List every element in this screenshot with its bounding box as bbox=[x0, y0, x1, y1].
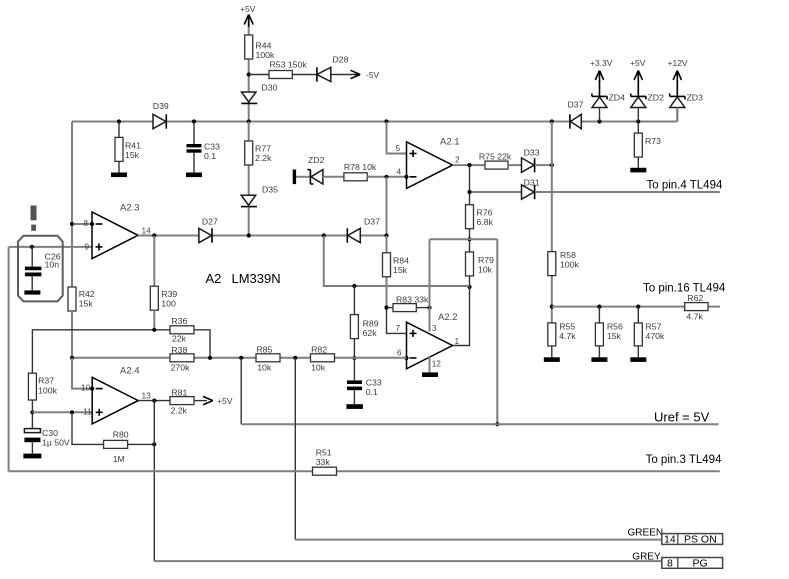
power +5V arrow right bbox=[630, 58, 646, 83]
svg-text:R37: R37 bbox=[38, 376, 54, 386]
node R39 bottom bbox=[152, 328, 156, 332]
wire pin11 line bbox=[32, 411, 92, 413]
resistor R80 bbox=[104, 430, 129, 465]
node C33a bbox=[192, 119, 196, 123]
svg-text:R41: R41 bbox=[125, 141, 141, 151]
resistor R56 bbox=[595, 307, 623, 358]
svg-text:R42: R42 bbox=[79, 289, 95, 299]
svg-text:1µ 50V: 1µ 50V bbox=[42, 438, 70, 448]
node R41 bbox=[117, 119, 121, 123]
wire GREEN line bbox=[295, 528, 663, 540]
node pin6 input dot bbox=[404, 356, 408, 360]
wire y=239 top run bbox=[430, 238, 498, 240]
node pin8 input bbox=[90, 222, 94, 226]
wire A2.1 output bbox=[453, 155, 486, 166]
svg-text:D27: D27 bbox=[202, 217, 218, 227]
node ZD2 bbox=[636, 119, 640, 123]
capacitor C26 bbox=[25, 247, 61, 291]
diode D31 bbox=[522, 178, 540, 200]
node junction R44/R53/D30 bbox=[247, 72, 251, 76]
svg-text:GREEN: GREEN bbox=[628, 528, 664, 539]
svg-text:A2.3: A2.3 bbox=[120, 203, 140, 214]
wire D30 to pin14 line with R77 D35 bbox=[248, 122, 250, 236]
svg-text:270k: 270k bbox=[171, 363, 190, 373]
node pin4 riser bottom bbox=[384, 233, 388, 237]
ground R55 bbox=[544, 357, 560, 362]
node R36 drop bbox=[208, 356, 212, 360]
resistor R77 bbox=[245, 141, 272, 165]
svg-text:C33: C33 bbox=[204, 142, 220, 152]
zener ZD4 bbox=[592, 80, 625, 122]
wire ZD3 riser corner bbox=[676, 108, 678, 122]
resistor R76 bbox=[466, 205, 494, 229]
svg-text:0.1: 0.1 bbox=[366, 387, 378, 397]
svg-text:R73: R73 bbox=[645, 136, 661, 146]
svg-text:+5V: +5V bbox=[217, 396, 233, 406]
wire pin8 stub bbox=[72, 223, 92, 225]
svg-text:R75 22k: R75 22k bbox=[479, 152, 512, 162]
wire to pin.4 TL494 bbox=[535, 180, 723, 193]
node D33 R58 riser bbox=[550, 163, 554, 167]
power +3.3V arrow bbox=[590, 58, 613, 83]
ground R57 bbox=[630, 357, 646, 362]
power +5V arrow bbox=[244, 15, 253, 28]
svg-text:R85: R85 bbox=[256, 345, 272, 355]
svg-text:+12V: +12V bbox=[668, 58, 688, 68]
svg-text:LM339N: LM339N bbox=[232, 271, 281, 286]
svg-text:R83 33k: R83 33k bbox=[396, 295, 429, 305]
capacitor C33 top bbox=[187, 122, 221, 173]
svg-text:100k: 100k bbox=[256, 50, 275, 60]
svg-text:10k: 10k bbox=[478, 265, 493, 275]
power +12V arrow bbox=[668, 58, 688, 83]
resistor R73 bbox=[634, 122, 661, 168]
ground A2.2 pin12 bbox=[422, 357, 438, 377]
svg-text:ZD2: ZD2 bbox=[648, 93, 665, 103]
connector PS ON box bbox=[662, 534, 723, 546]
capacitor C30 bbox=[24, 428, 70, 454]
wire Uref =5V line bbox=[241, 358, 718, 425]
power +5V arrow A2.4 bbox=[194, 396, 233, 406]
wire pin5 riser bbox=[387, 122, 407, 154]
power -5V arrow bbox=[351, 70, 380, 80]
node R56 bbox=[597, 305, 601, 309]
resistor R36 bbox=[170, 316, 194, 344]
svg-text:R77: R77 bbox=[255, 144, 271, 154]
svg-text:8: 8 bbox=[667, 557, 673, 569]
svg-text:10k: 10k bbox=[311, 363, 326, 373]
svg-text:12: 12 bbox=[432, 359, 442, 369]
svg-text:+3.3V: +3.3V bbox=[590, 58, 613, 68]
svg-text:ZD3: ZD3 bbox=[687, 93, 704, 103]
node D35 bottom bbox=[247, 233, 251, 237]
diode D27 bbox=[199, 217, 218, 243]
wire R76 chain vertical bbox=[469, 165, 471, 287]
wire pin4 drop to pin14 line bbox=[386, 177, 388, 236]
resistor R78 bbox=[323, 162, 407, 181]
svg-text:To pin.4 TL494: To pin.4 TL494 bbox=[647, 180, 723, 192]
zener ZD2 right bbox=[631, 80, 664, 122]
svg-text:15k: 15k bbox=[79, 299, 94, 309]
svg-text:R79: R79 bbox=[478, 255, 494, 265]
zener ZD2 small bbox=[293, 155, 325, 184]
svg-text:5: 5 bbox=[396, 143, 401, 153]
node R58 riser bbox=[550, 119, 554, 123]
resistor R79 bbox=[466, 252, 495, 276]
svg-text:D33: D33 bbox=[524, 148, 540, 158]
resistor R53 bbox=[269, 60, 307, 79]
svg-text:15k: 15k bbox=[393, 265, 408, 275]
ground R41 bbox=[111, 173, 127, 178]
diode D35 bbox=[241, 185, 278, 207]
node Uref drop bbox=[239, 356, 243, 360]
node ZD4 bbox=[597, 119, 601, 123]
svg-text:D35: D35 bbox=[262, 185, 278, 195]
svg-text:4.7k: 4.7k bbox=[559, 331, 576, 341]
node Uref junction bbox=[495, 422, 499, 426]
svg-text:1M: 1M bbox=[113, 454, 125, 464]
svg-text:D37: D37 bbox=[568, 100, 584, 110]
resistor R41 bbox=[115, 122, 141, 173]
ground R56 bbox=[591, 357, 607, 362]
warning mark bbox=[31, 206, 37, 231]
svg-text:C33: C33 bbox=[366, 378, 382, 388]
node R83 right bbox=[427, 306, 431, 310]
svg-text:11: 11 bbox=[83, 407, 92, 417]
svg-text:62k: 62k bbox=[363, 328, 378, 338]
resistor R58 bbox=[548, 250, 580, 276]
wire pin9 line from outer loop bbox=[9, 246, 92, 248]
ground C33 top bbox=[186, 173, 202, 178]
resistor R83 bbox=[387, 295, 430, 312]
wire R58 riser bbox=[551, 122, 553, 323]
svg-text:R78 10k: R78 10k bbox=[344, 162, 377, 172]
svg-text:R55: R55 bbox=[559, 322, 575, 332]
svg-text:R82: R82 bbox=[311, 345, 327, 355]
ground R73 bbox=[630, 168, 646, 173]
wire to pin.3 TL494 with R51 bbox=[9, 454, 722, 471]
resistor R38 bbox=[170, 345, 194, 373]
svg-text:2: 2 bbox=[455, 155, 460, 165]
svg-text:+5V: +5V bbox=[630, 58, 646, 68]
resistor R51 bbox=[313, 448, 337, 476]
wire +5V arrow shaft to R44 and down to main bus bbox=[248, 20, 250, 122]
svg-text:D37: D37 bbox=[364, 217, 380, 227]
svg-text:PS ON: PS ON bbox=[684, 534, 717, 546]
node R83 left bbox=[384, 306, 388, 310]
svg-text:R38: R38 bbox=[171, 345, 187, 355]
svg-text:R80: R80 bbox=[113, 430, 129, 440]
wire GREEN drop bbox=[294, 358, 296, 540]
svg-text:10k: 10k bbox=[257, 363, 272, 373]
svg-text:R44: R44 bbox=[256, 41, 272, 51]
svg-text:C30: C30 bbox=[42, 428, 58, 438]
wire R84 R83 pin7 chain bbox=[387, 236, 407, 334]
svg-text:7: 7 bbox=[396, 323, 401, 333]
resistor R44 bbox=[245, 35, 275, 60]
diode D28 bbox=[317, 55, 349, 82]
resistor R42 bbox=[68, 287, 95, 358]
svg-text:2.2k: 2.2k bbox=[255, 153, 272, 163]
diode D37 mid bbox=[347, 217, 380, 243]
node R80 right bbox=[152, 442, 156, 446]
svg-text:6: 6 bbox=[397, 348, 402, 358]
svg-text:15k: 15k bbox=[607, 331, 622, 341]
wire x=323.8 drop and y=286 run bbox=[324, 236, 470, 287]
resistor R55 bbox=[548, 322, 576, 358]
svg-text:+5V: +5V bbox=[240, 4, 256, 14]
resistor R85 bbox=[256, 345, 280, 373]
node D31 junction bbox=[467, 190, 471, 194]
resistor R39 bbox=[150, 236, 177, 330]
wire D31 branch bbox=[470, 191, 522, 193]
ground C30 bbox=[23, 454, 41, 459]
svg-text:3: 3 bbox=[432, 323, 437, 333]
node R76 bottom bbox=[467, 237, 471, 241]
wire left riser x=72 top bbox=[71, 122, 73, 288]
wire pin13 drop to GREY bbox=[153, 401, 155, 561]
svg-text:To pin.3 TL494: To pin.3 TL494 bbox=[646, 454, 722, 466]
svg-text:ZD4: ZD4 bbox=[609, 93, 626, 103]
node pin13 bbox=[152, 399, 156, 403]
svg-text:A2.2: A2.2 bbox=[438, 312, 458, 323]
wire pin3 drop to Uref bbox=[496, 239, 498, 424]
svg-text:D30: D30 bbox=[262, 83, 278, 93]
node pin4 input dot bbox=[404, 175, 408, 179]
resistor R57 bbox=[634, 307, 665, 358]
svg-text:4: 4 bbox=[397, 167, 402, 177]
wire main bus y=121.5 bbox=[72, 121, 677, 123]
node R78 pin4 bbox=[384, 175, 388, 179]
node pin5 riser bbox=[384, 119, 388, 123]
node output pin2 bbox=[467, 163, 471, 167]
svg-text:D28: D28 bbox=[333, 55, 349, 65]
svg-text:33k: 33k bbox=[316, 457, 331, 467]
svg-text:R56: R56 bbox=[607, 322, 623, 332]
node R37 C30 pin11 bbox=[30, 410, 34, 414]
label A2 LM339N bbox=[206, 271, 281, 286]
svg-text:To pin.16 TL494: To pin.16 TL494 bbox=[643, 283, 726, 295]
svg-text:A2.4: A2.4 bbox=[120, 366, 140, 377]
wire R38 line bbox=[72, 357, 407, 359]
svg-text:14: 14 bbox=[664, 534, 676, 546]
svg-text:2.2k: 2.2k bbox=[171, 406, 188, 416]
resistor R75 bbox=[479, 152, 522, 170]
wire R36 line bbox=[32, 330, 210, 373]
svg-text:100k: 100k bbox=[560, 260, 579, 270]
diode D33 bbox=[522, 148, 552, 173]
wire R80 feedback bbox=[72, 412, 154, 444]
diode D30 bbox=[241, 83, 277, 104]
diode D39 bbox=[153, 101, 169, 129]
svg-text:0.1: 0.1 bbox=[204, 151, 216, 161]
node pin14 R39 bbox=[152, 233, 156, 237]
resistor R82 bbox=[311, 345, 335, 373]
resistor R81 bbox=[170, 388, 194, 416]
connector PG box bbox=[662, 557, 723, 569]
svg-text:R89: R89 bbox=[363, 319, 379, 329]
svg-text:ZD2: ZD2 bbox=[308, 155, 325, 165]
wire pin3 riser bbox=[429, 239, 431, 331]
wire A2.2 output jog bbox=[453, 287, 470, 346]
svg-text:R51: R51 bbox=[316, 448, 332, 458]
node pin16 junction bbox=[550, 305, 554, 309]
node D30 branch bbox=[247, 119, 251, 123]
node pin10 input bbox=[90, 387, 94, 391]
svg-text:Uref = 5V: Uref = 5V bbox=[654, 409, 710, 424]
op-amp A2.3 bbox=[84, 203, 140, 259]
svg-text:10n: 10n bbox=[45, 259, 60, 269]
node R57 bbox=[636, 305, 640, 309]
svg-text:4.7k: 4.7k bbox=[686, 312, 703, 322]
svg-text:22k: 22k bbox=[172, 334, 187, 344]
ground C33 bottom bbox=[346, 404, 363, 409]
capacitor C33 bottom bbox=[347, 358, 382, 404]
svg-text:13: 13 bbox=[142, 391, 152, 401]
wire pin10 jog bbox=[72, 358, 92, 389]
op-amp A2.1 bbox=[396, 137, 460, 189]
wire outer loop left bbox=[8, 247, 10, 471]
svg-text:R81: R81 bbox=[171, 388, 187, 398]
svg-text:D39: D39 bbox=[153, 101, 169, 111]
svg-text:470k: 470k bbox=[646, 331, 665, 341]
wire A2.3 output pin14 line bbox=[138, 226, 387, 236]
svg-text:100k: 100k bbox=[38, 386, 57, 396]
svg-text:6.8k: 6.8k bbox=[477, 217, 494, 227]
svg-text:R76: R76 bbox=[477, 208, 493, 218]
wire R53 branch bbox=[249, 74, 354, 76]
svg-text:14: 14 bbox=[142, 226, 152, 236]
node pin11 R80 drop bbox=[70, 410, 74, 414]
svg-text:A2: A2 bbox=[206, 271, 222, 286]
resistor R89 bbox=[350, 286, 378, 358]
node R89 bottom bbox=[352, 356, 356, 360]
diode D37 top right bbox=[568, 100, 584, 129]
resistor R84 bbox=[383, 253, 410, 277]
svg-text:R58: R58 bbox=[560, 250, 576, 260]
wire GREY line bbox=[154, 552, 662, 563]
node GREEN drop bbox=[293, 356, 297, 360]
svg-text:GREY: GREY bbox=[632, 552, 661, 563]
node C26 top bbox=[30, 245, 34, 249]
node pin8 riser bbox=[70, 222, 74, 226]
node R89 top bbox=[352, 284, 356, 288]
wire A2.4 output bbox=[138, 391, 170, 401]
svg-text:R36: R36 bbox=[171, 316, 187, 326]
svg-text:-5V: -5V bbox=[366, 70, 380, 80]
svg-text:R39: R39 bbox=[161, 289, 177, 299]
wire R37 chain bbox=[28, 373, 57, 429]
svg-text:PG: PG bbox=[693, 557, 708, 569]
svg-text:R62: R62 bbox=[687, 293, 703, 303]
svg-text:R53 150k: R53 150k bbox=[270, 60, 308, 70]
op-amp A2.2 bbox=[396, 312, 460, 369]
op-amp A2.4 bbox=[81, 366, 140, 424]
wire to pin.16 TL494 bbox=[552, 283, 726, 307]
svg-text:R57: R57 bbox=[646, 322, 662, 332]
zener ZD3 bbox=[670, 80, 703, 122]
C26 highlight capsule bbox=[18, 236, 63, 302]
node R79 bottom output bbox=[467, 285, 471, 289]
svg-text:D31: D31 bbox=[524, 178, 540, 188]
node x=323.8 branch bbox=[322, 233, 326, 237]
svg-text:R84: R84 bbox=[393, 256, 409, 266]
resistor R62 bbox=[685, 293, 708, 322]
svg-text:10: 10 bbox=[81, 383, 91, 393]
svg-text:1: 1 bbox=[455, 336, 460, 346]
svg-text:A2.1: A2.1 bbox=[440, 137, 460, 148]
svg-text:8: 8 bbox=[84, 218, 89, 228]
ground C26 bbox=[24, 290, 40, 294]
svg-text:100: 100 bbox=[161, 299, 176, 309]
svg-text:15k: 15k bbox=[125, 150, 140, 160]
node R42 bottom bbox=[70, 356, 74, 360]
svg-text:9: 9 bbox=[85, 242, 90, 252]
